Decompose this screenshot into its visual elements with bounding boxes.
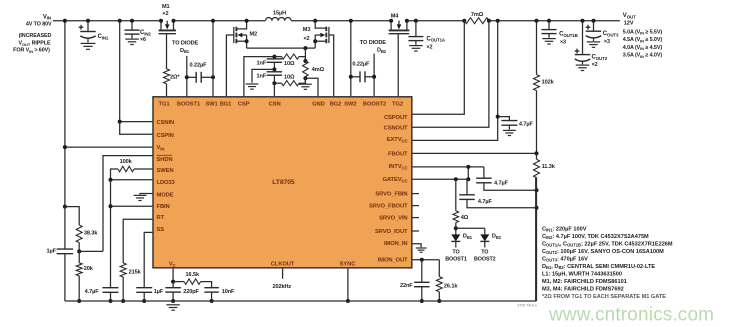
svg-text:×3: ×3 [604, 39, 610, 45]
svg-text:FBIN: FBIN [157, 204, 170, 210]
svg-text:BG2: BG2 [330, 101, 342, 107]
svg-text:10Ω: 10Ω [284, 61, 295, 67]
ground MODE [140, 194, 153, 195]
svg-text:×2: ×2 [162, 11, 168, 17]
wire snubber mid to ground [252, 69, 274, 82]
svg-text:CIN2: 4.7µF 100V, TDK C4532X7S: CIN2: 4.7µF 100V, TDK C4532X7S2A475M [542, 234, 649, 240]
svg-text:SYNC: SYNC [340, 261, 357, 267]
pin stubs SRVO [412, 193, 419, 195]
svg-text:SW1: SW1 [205, 101, 218, 107]
svg-text:11.3k: 11.3k [542, 164, 556, 170]
svg-text:12V: 12V [624, 21, 634, 27]
svg-text:CIN1: 220µF 100V: CIN1: 220µF 100V [542, 226, 587, 232]
svg-text:SRVO_FBIN: SRVO_FBIN [375, 192, 407, 198]
svg-text:10nF: 10nF [222, 289, 235, 295]
wire VC [172, 268, 174, 282]
svg-text:0.22µF: 0.22µF [190, 63, 208, 69]
svg-text:DB2: DB2 [377, 48, 387, 54]
svg-text:DB1: DB1 [180, 48, 190, 54]
svg-text:VC: VC [169, 261, 176, 267]
diode DB2 [484, 228, 486, 234]
svg-text:COUT2: 100µF 16V, SANYO OS-CON: COUT2: 100µF 16V, SANYO OS-CON 16SA100M [542, 249, 664, 255]
capacitor 1nF bottom [267, 71, 283, 73]
wire SHDN [103, 156, 153, 252]
capacitor 4.7uF ldo33 [103, 287, 119, 289]
svg-text:CIN2: CIN2 [140, 30, 151, 36]
resistor 11.3k [536, 153, 538, 159]
svg-text:BOOST1: BOOST1 [445, 257, 467, 263]
capacitor 1nF top [267, 58, 283, 60]
svg-text:SW2: SW2 [344, 101, 356, 107]
svg-text:TG2: TG2 [392, 101, 403, 107]
capacitor 0.22uF boost1 [185, 75, 189, 79]
resistor 16.5k [173, 281, 184, 283]
capacitor 1uF vin [64, 207, 66, 250]
node VOUT output terminal [535, 19, 539, 23]
capacitor 1uF SS [144, 232, 153, 287]
svg-text:4.7µF: 4.7µF [478, 199, 493, 205]
svg-text:4mΩ: 4mΩ [312, 67, 325, 73]
svg-text:MODE: MODE [157, 193, 174, 199]
wire M3 source to sense [305, 47, 315, 49]
wire CSPIN branch [120, 122, 153, 135]
wire INTVCC tie GATEVCC [467, 167, 469, 179]
wire VIN rail to M1 [53, 20, 161, 22]
resistor 10R bottom [274, 82, 281, 84]
wire CSNIN/CSPIN from rail [120, 21, 153, 122]
svg-text:4.7µF: 4.7µF [494, 180, 509, 186]
wire SYNC [347, 268, 349, 301]
svg-text:16.5k: 16.5k [186, 272, 200, 278]
svg-text:COUT2: COUT2 [592, 55, 608, 61]
capacitor 22nF [421, 260, 423, 283]
svg-text:GND: GND [312, 101, 325, 107]
wire BG2 gate M3 [329, 35, 334, 97]
wire CSNOUT [412, 21, 489, 128]
svg-text:CSP: CSP [238, 101, 250, 107]
svg-text:×3: ×3 [560, 40, 566, 46]
capacitor 0.22uF boost2 [349, 75, 353, 79]
capacitor COUT2 [582, 21, 584, 55]
capacitor CIN1 [86, 19, 90, 23]
svg-text:215k: 215k [129, 270, 142, 276]
svg-text:COUT3: 470µF 16V: COUT3: 470µF 16V [542, 256, 588, 262]
wire BOOST2 to diode DB2 [373, 54, 375, 97]
svg-text:1nF: 1nF [257, 73, 267, 79]
wire SW2 [350, 21, 352, 97]
svg-text:3.5A (VIN ≥ 4.0V): 3.5A (VIN ≥ 4.0V) [623, 53, 663, 59]
svg-text:38.3k: 38.3k [84, 231, 98, 237]
wire TG1 [166, 84, 168, 97]
svg-text:SRVO_IOUT: SRVO_IOUT [375, 229, 408, 235]
wire M1 source to L1 [174, 20, 266, 22]
svg-text:BOOST2: BOOST2 [363, 101, 386, 107]
svg-text:5.0A (VIN ≥ 5.5V): 5.0A (VIN ≥ 5.5V) [623, 29, 663, 35]
wire CSPOUT [412, 21, 465, 115]
svg-text:22nF: 22nF [400, 283, 413, 289]
svg-text:2Ω*: 2Ω* [170, 75, 180, 81]
resistor 102k [536, 21, 538, 75]
wire TG2 gate M4 [397, 34, 399, 97]
capacitor 10nF [204, 287, 219, 289]
resistor 10R top [274, 56, 281, 58]
svg-text:4Ω: 4Ω [461, 215, 469, 221]
capacitor COUT3 [593, 21, 595, 32]
capacitor 4.7uF intvcc [483, 167, 485, 178]
svg-text:1µF: 1µF [47, 248, 57, 254]
svg-text:4.0A (VIN ≥ 4.5V): 4.0A (VIN ≥ 4.5V) [623, 45, 663, 51]
resistor 2R gate M1 [166, 34, 168, 69]
svg-text:GATEVCC: GATEVCC [382, 177, 407, 183]
resistor 26.1k [438, 260, 440, 277]
svg-text:LT8705: LT8705 [272, 179, 295, 186]
svg-text:100k: 100k [120, 159, 133, 165]
wire BOOST1 to diode DB1 [186, 56, 188, 97]
svg-text:×2: ×2 [592, 62, 598, 68]
capacitor COUT1A [414, 19, 418, 23]
wire M2 source rail [247, 47, 306, 49]
svg-text:DB1: DB1 [463, 234, 473, 240]
wire L1 to M4 [291, 20, 391, 22]
resistor 100k SWEN pullup [134, 168, 153, 170]
svg-text:CSNIN: CSNIN [157, 120, 175, 126]
svg-text:VIN: VIN [43, 14, 51, 20]
svg-text:SRVO_FBOUT: SRVO_FBOUT [369, 204, 408, 210]
svg-text:CIN1: CIN1 [98, 34, 109, 40]
svg-text:SHDN: SHDN [157, 157, 173, 163]
svg-text:20k: 20k [84, 266, 94, 272]
resistor 20k [76, 263, 82, 276]
wire GND pin [305, 78, 318, 97]
ground sense resistor [304, 78, 306, 83]
svg-text:BOOST1: BOOST1 [177, 101, 201, 107]
resistor 4R gate supply [455, 179, 457, 211]
svg-text:VIN: VIN [157, 145, 165, 151]
svg-text:102k: 102k [542, 80, 555, 86]
svg-text:VOUT: VOUT [623, 13, 636, 19]
svg-text:DB2: DB2 [492, 234, 502, 240]
wire left VIN vertical [64, 21, 66, 207]
wire SHDN divider tap [79, 250, 103, 252]
svg-text:EXTVCC: EXTVCC [387, 137, 408, 143]
svg-text:M3, M4: FAIRCHILD FDMS7692: M3, M4: FAIRCHILD FDMS7692 [542, 286, 624, 292]
wire divider [536, 91, 538, 154]
svg-text:CLKOUT: CLKOUT [271, 261, 295, 267]
svg-text:×2: ×2 [303, 36, 309, 42]
svg-text:SS: SS [157, 227, 165, 233]
svg-text:(INCREASED: (INCREASED [19, 33, 52, 39]
wire FBIN [111, 205, 154, 207]
svg-text:FBOUT: FBOUT [388, 151, 408, 157]
svg-text:BG1: BG1 [220, 101, 232, 107]
diode DB1 [455, 228, 457, 234]
svg-text:VOUT RIPPLE: VOUT RIPPLE [19, 40, 51, 46]
svg-text:M1, M2: FAIRCHILD FDMS86101: M1, M2: FAIRCHILD FDMS86101 [542, 279, 627, 285]
wire BG1 gate M2 [226, 35, 233, 97]
svg-text:LDO33: LDO33 [157, 180, 176, 186]
wire LDO33/FBIN tie [110, 180, 112, 288]
ground IMON_IN [412, 244, 421, 248]
svg-text:COUT1B: COUT1B [559, 32, 578, 38]
wire FBOUT [412, 152, 537, 154]
svg-text:M2: M2 [250, 32, 258, 38]
resistor 7mR output sense [462, 19, 466, 23]
svg-text:SRVO_VIN: SRVO_VIN [379, 216, 407, 222]
svg-text:DB1, DB2: CENTRAL SEMI CMMR1U-: DB1, DB2: CENTRAL SEMI CMMR1U-02-LTE [542, 264, 655, 270]
svg-text:4.7µF: 4.7µF [85, 289, 100, 295]
svg-text:4V TO 80V: 4V TO 80V [26, 22, 52, 28]
svg-text:CSN: CSN [269, 101, 281, 107]
svg-text:CSPOUT: CSPOUT [384, 115, 408, 121]
wire output rail [489, 20, 620, 22]
svg-text:TO: TO [481, 250, 488, 256]
wire divider ground leg [536, 178, 538, 301]
svg-text:220pF: 220pF [183, 289, 199, 295]
capacitor 4.7uF gatevcc [466, 179, 468, 195]
op-amp U1 LT8705 controller IC [153, 97, 412, 268]
svg-text:M4: M4 [391, 13, 400, 19]
svg-text:www.cntronics.com: www.cntronics.com [548, 304, 714, 325]
svg-text:RT: RT [157, 215, 165, 221]
svg-text:×2: ×2 [426, 45, 432, 51]
svg-text:COUT1A: COUT1A [426, 36, 446, 42]
svg-text:4.7µF: 4.7µF [519, 121, 534, 127]
svg-text:L1: 15µH, WURTH 7443631500: L1: 15µH, WURTH 7443631500 [542, 271, 622, 277]
wire to DB2 [456, 227, 485, 229]
wire CSP filter [244, 57, 275, 97]
svg-text:×6: ×6 [140, 37, 146, 43]
svg-text:M1: M1 [162, 4, 170, 10]
svg-text:TO DIODE: TO DIODE [360, 40, 387, 46]
svg-text:7mΩ: 7mΩ [471, 12, 484, 18]
svg-text:SWEN: SWEN [157, 168, 174, 174]
wire CLKOUT stub [282, 268, 284, 279]
wire M4 to output [407, 20, 464, 22]
svg-text:CSNOUT: CSNOUT [384, 125, 408, 131]
svg-text:202kHz: 202kHz [272, 284, 291, 290]
svg-text:TO: TO [452, 250, 459, 256]
capacitor 220pF [172, 282, 174, 288]
wire IMON_OUT [412, 259, 440, 261]
wire INTVCC [412, 166, 484, 168]
svg-text:TG1: TG1 [159, 101, 171, 107]
svg-text:FOR VIN > 60V): FOR VIN > 60V) [13, 48, 50, 54]
svg-text:IMON_OUT: IMON_OUT [378, 258, 408, 264]
svg-text:15µH: 15µH [273, 11, 286, 17]
wire LDO33 [111, 179, 154, 181]
svg-text:0.22µF: 0.22µF [352, 61, 370, 67]
wire ground bus [65, 178, 536, 301]
svg-text:IMON_IN: IMON_IN [384, 241, 407, 247]
svg-text:COUT3: COUT3 [603, 31, 619, 37]
svg-text:26.1k: 26.1k [444, 284, 458, 290]
svg-text:TO DIODE: TO DIODE [172, 41, 199, 47]
svg-text:10Ω: 10Ω [284, 74, 295, 80]
svg-text:BOOST2: BOOST2 [474, 257, 496, 263]
wire GATEVCC [412, 178, 469, 180]
svg-text:1nF: 1nF [257, 60, 267, 66]
svg-text:8705 TA01a: 8705 TA01a [517, 303, 537, 307]
wire EXTVCC [412, 21, 498, 141]
svg-text:1µF: 1µF [154, 289, 164, 295]
resistor 215k RT [123, 219, 153, 263]
svg-text:COUT1A, COUT1B: 22µF 25V, TDK: COUT1A, COUT1B: 22µF 25V, TDK C4532X7R1E… [542, 241, 673, 247]
ground main bus [166, 305, 180, 310]
svg-text:*2Ω FROM TG1 TO EACH SEPARATE: *2Ω FROM TG1 TO EACH SEPARATE M1 GATE [542, 294, 666, 300]
wire SW1 [212, 21, 214, 97]
capacitor CIN2 [118, 19, 122, 23]
wire CSN [273, 83, 275, 97]
wire VIN pin [65, 146, 153, 148]
svg-text:4.5A (VIN ≥ 5.0V): 4.5A (VIN ≥ 5.0V) [623, 37, 663, 43]
resistor 38.3k [63, 205, 67, 209]
resistor 4mR sense [304, 48, 306, 61]
svg-text:INTVCC: INTVCC [389, 164, 408, 170]
svg-text:M3: M3 [303, 27, 311, 33]
svg-text:CSPIN: CSPIN [157, 133, 174, 139]
capacitor 4.7uF extvcc [498, 117, 510, 121]
capacitor COUT1B [548, 21, 550, 30]
